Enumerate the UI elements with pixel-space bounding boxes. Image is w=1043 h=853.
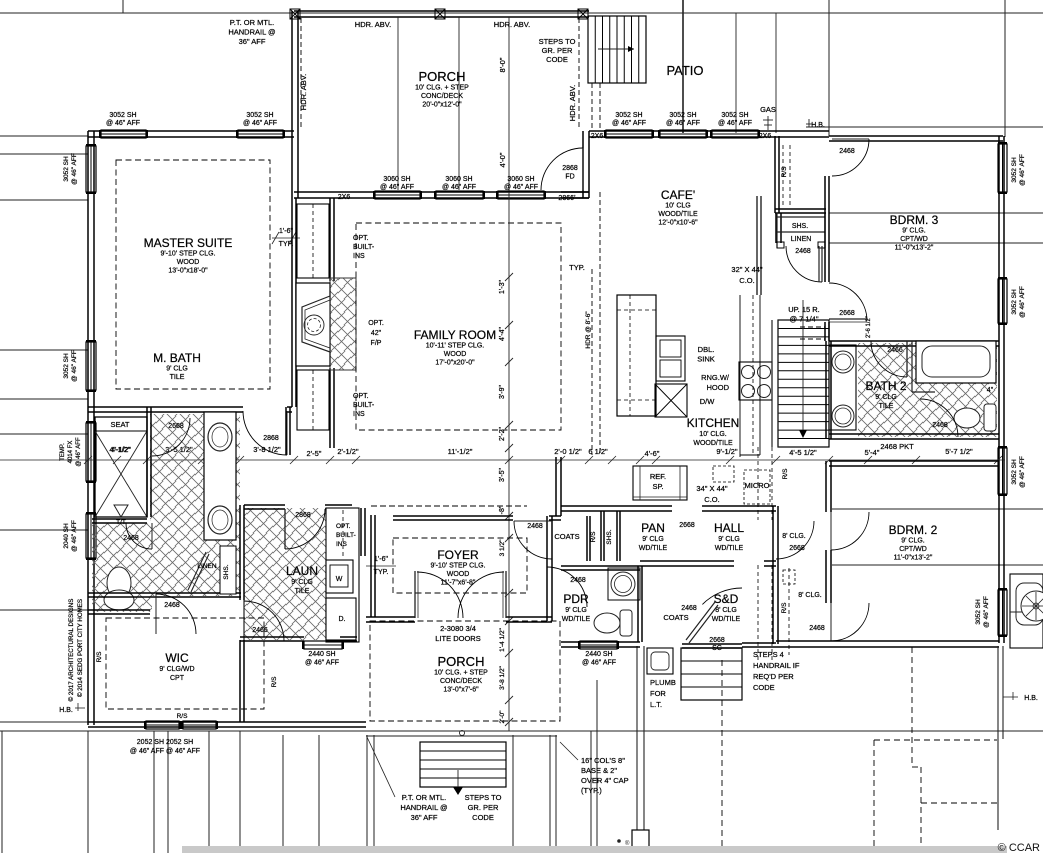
grid vline x123 top (122, 0, 124, 13)
svg-text:-8": -8" (499, 505, 506, 514)
svg-text:2468: 2468 (681, 605, 697, 612)
mbath sink 1 (208, 423, 232, 451)
dbl sink box (656, 336, 685, 381)
porch interior vline 1 (397, 17, 399, 190)
mbath wall below shower (92, 518, 147, 520)
svg-text:3052 SH: 3052 SH (721, 112, 748, 119)
svg-text:8'-0": 8'-0" (498, 57, 507, 72)
svg-text:R/S: R/S (271, 676, 278, 688)
svg-text:C.O.: C.O. (739, 276, 754, 285)
tiny marks bottom (617, 839, 621, 843)
svg-text:12'-0"x10'-6": 12'-0"x10'-6" (658, 220, 698, 227)
svg-text:© 2017 ARCHITECTURAL DESIGNS: © 2017 ARCHITECTURAL DESIGNS (68, 599, 75, 702)
svg-text:3052 SH: 3052 SH (109, 112, 136, 119)
patio vline 2 (735, 13, 737, 133)
family left wall upper (329, 198, 331, 281)
svg-text:HDR. ABV.: HDR. ABV. (355, 20, 391, 29)
grid vline x550 bottom (549, 735, 551, 853)
grid line bottom main (0, 730, 1043, 732)
svg-text:TILE: TILE (170, 374, 185, 381)
porch stairs bottom (420, 742, 506, 787)
foyer left wall (370, 515, 372, 617)
svg-text:© CCAR: © CCAR (998, 842, 1040, 853)
svg-text:(TYP.): (TYP.) (581, 786, 602, 795)
shs wall mbath (220, 546, 236, 594)
bdrm2 left wall upper (825, 461, 827, 512)
mbath bottom wall (88, 592, 241, 594)
opt nook right wall (360, 508, 362, 556)
leader 16cols (560, 742, 578, 760)
svg-text:PAN: PAN (641, 521, 665, 535)
svg-text:C.O.: C.O. (704, 495, 719, 504)
svg-text:@ 46" AFF: @ 46" AFF (380, 184, 414, 191)
svg-text:HANDRAIL IF: HANDRAIL IF (753, 661, 800, 670)
dbl sink inner1 (660, 340, 681, 357)
fireplace surround (302, 296, 330, 352)
bath2 sink 2 (832, 405, 854, 427)
right wall below (997, 646, 999, 830)
cafe top wall (589, 130, 829, 132)
laun W box (326, 560, 353, 593)
svg-text:11'-1/2": 11'-1/2" (448, 447, 473, 456)
cafe dashed hdr line (591, 269, 593, 455)
laun door bottom arc (244, 601, 284, 641)
patio stair arrow (598, 48, 634, 50)
grid line top (0, 12, 1043, 14)
toilet room door (126, 523, 152, 549)
svg-text:@ 46" AFF: @ 46" AFF (305, 660, 339, 667)
pdr sink (611, 572, 635, 596)
svg-text:10' CLG. + STEP: 10' CLG. + STEP (434, 670, 488, 677)
svg-text:WD/TILE: WD/TILE (639, 545, 668, 552)
svg-text:BASE & 2": BASE & 2" (581, 766, 617, 775)
bdrm2 fan box (1010, 574, 1043, 648)
linen door diag (188, 552, 206, 590)
bdrm2 door 1 (831, 512, 869, 550)
dashed box right of ref (713, 466, 734, 482)
svg-text:H.B.: H.B. (811, 122, 825, 129)
svg-text:@ 46" AFF: @ 46" AFF (504, 184, 538, 191)
svg-text:P.T. OR MTL.: P.T. OR MTL. (402, 793, 446, 802)
master east wall (291, 198, 293, 407)
svg-text:8' CLG: 8' CLG (715, 607, 737, 614)
wic laun divider (239, 640, 241, 722)
svg-text:9' CLG/WD: 9' CLG/WD (159, 666, 194, 673)
laun bottom wall (240, 636, 304, 638)
laun north door (284, 509, 286, 549)
wic bottom wall (88, 721, 366, 723)
grid line left y200 (0, 199, 88, 201)
stair landing dashes (800, 326, 825, 328)
svg-text:CPT: CPT (170, 675, 185, 682)
svg-text:LAUN: LAUN (286, 564, 318, 578)
svg-text:WOOD/TILE: WOOD/TILE (693, 440, 733, 447)
svg-text:3'-5": 3'-5" (499, 468, 506, 482)
svg-text:CPT/WD: CPT/WD (899, 546, 927, 553)
center dashed vline bottom (721, 660, 723, 853)
svg-text:HANDRAIL @: HANDRAIL @ (400, 803, 447, 812)
bdrm2 left wall mid (825, 550, 827, 603)
pdr toilet (594, 613, 620, 633)
window 3052 bdrm3 right (998, 144, 1007, 192)
stairtop door 2668 (829, 283, 867, 321)
family ceiling dashed rect (356, 223, 561, 430)
builtin box bottom inner (312, 370, 314, 430)
svg-text:P.T. OR MTL.: P.T. OR MTL. (230, 18, 274, 27)
svg-text:2868: 2868 (263, 435, 279, 442)
svg-text:2468: 2468 (570, 577, 586, 584)
mbath sink 2 (208, 506, 232, 534)
svg-text:2868: 2868 (562, 165, 578, 172)
sd diag door (686, 602, 715, 640)
svg-text:13'-0"x7'-6": 13'-0"x7'-6" (443, 687, 479, 694)
grid line left y530 (0, 529, 88, 531)
mbath top wall (88, 406, 243, 408)
svg-text:2'-0 1/2": 2'-0 1/2" (554, 447, 582, 456)
toilet room hatch (92, 523, 152, 612)
svg-text:9' CLG: 9' CLG (642, 536, 664, 543)
svg-text:3 1/2": 3 1/2" (499, 539, 506, 556)
master top wall (88, 130, 294, 132)
porch floor edge (366, 730, 557, 732)
svg-text:20'-0"x12'-0": 20'-0"x12'-0" (422, 102, 462, 109)
svg-text:9' CLG: 9' CLG (291, 579, 313, 586)
svg-text:PORCH: PORCH (438, 654, 485, 669)
kitchen tall cabinet wall (756, 196, 758, 295)
window 2052 wic 1 (146, 721, 179, 729)
window 2440 laun (304, 641, 342, 649)
shs linen closet (777, 216, 825, 218)
sd stairs (681, 648, 742, 700)
svg-text:11'-7"x6'-8": 11'-7"x6'-8" (441, 580, 476, 587)
grid vline x2 bottom (1, 731, 3, 853)
window 3060 family 1 (375, 191, 420, 199)
bdrm3 left wall (824, 176, 826, 282)
landing bottom wall (742, 642, 776, 644)
svg-text:HDR @ 8'-6": HDR @ 8'-6" (585, 311, 592, 349)
svg-text:LINEN: LINEN (791, 236, 812, 243)
window 3052 left 1 (86, 146, 96, 192)
svg-text:@ 46" AFF: @ 46" AFF (1019, 154, 1026, 186)
svg-text:BDRM. 2: BDRM. 2 (889, 523, 938, 537)
svg-text:2868: 2868 (295, 512, 311, 519)
bottomright dashed jog (912, 766, 921, 768)
svg-text:2668: 2668 (789, 545, 805, 552)
shower TT (114, 505, 128, 517)
svg-text:@ 46" AFF: @ 46" AFF (76, 437, 82, 467)
porch stair arrow down (457, 770, 459, 788)
svg-text:S&D: S&D (714, 592, 739, 606)
svg-text:WIC: WIC (165, 651, 189, 665)
svg-text:OPT.: OPT. (368, 320, 384, 327)
foyer right wall (546, 516, 548, 621)
svg-text:LITE DOORS: LITE DOORS (435, 634, 480, 643)
dbl sink inner2 (660, 360, 681, 377)
svg-text:4": 4" (987, 387, 994, 394)
bdrm2 door 2 (831, 603, 869, 641)
svg-text:BUILT-: BUILT- (336, 532, 356, 539)
window 2052 wic 2 (183, 721, 216, 729)
foyer front wall left (366, 616, 415, 618)
grid vline x591 bottom (590, 731, 592, 853)
svg-text:@ 46" AFF: @ 46" AFF (1019, 286, 1026, 318)
front door arcs (417, 572, 463, 618)
svg-text:© 2014 SEDG PORT CITY HOMES: © 2014 SEDG PORT CITY HOMES (77, 599, 84, 697)
bottomright dashed h1 (874, 739, 997, 741)
door 2868 FD arc (541, 148, 583, 190)
svg-text:BDRM. 3: BDRM. 3 (890, 213, 939, 227)
bath2 toilet (954, 408, 980, 428)
svg-text:INS: INS (336, 541, 348, 548)
sd closet dashed (757, 565, 759, 660)
builtin box top inner (312, 204, 314, 278)
svg-text:9' CLG.: 9' CLG. (902, 228, 926, 235)
sd right wall (772, 506, 774, 644)
grid line left y133 (0, 135, 88, 137)
svg-text:3052 SH: 3052 SH (1011, 289, 1018, 315)
laun builtins column (326, 508, 359, 642)
bdrm2 bottom wall (776, 640, 999, 642)
bath2 vanity (829, 345, 856, 430)
grid vline x597 bottom (596, 680, 598, 853)
svg-text:36" AFF: 36" AFF (411, 813, 438, 822)
grid vline x319 bottom (318, 735, 320, 853)
svg-text:6 1/2": 6 1/2" (588, 447, 608, 456)
window 3052 cafe 2 (660, 130, 706, 138)
cafe dashed hdr line2 (599, 192, 601, 455)
bottomright dashed v1 (911, 647, 913, 767)
svg-text:HDR. ABV.: HDR. ABV. (568, 85, 577, 121)
svg-text:4'-5 1/2": 4'-5 1/2" (789, 448, 817, 457)
svg-text:9'-10' STEP CLG.: 9'-10' STEP CLG. (430, 563, 485, 570)
svg-text:42": 42" (371, 330, 382, 337)
svg-text:3052 SH: 3052 SH (975, 599, 982, 625)
svg-text:@ 46" AFF: @ 46" AFF (71, 520, 78, 552)
pdr bottom wall (561, 641, 640, 643)
shower X (95, 431, 147, 517)
svg-text:2X6: 2X6 (338, 194, 351, 201)
coats door arc (514, 521, 552, 559)
svg-text:9' CLG: 9' CLG (718, 536, 740, 543)
grid line left y722 (0, 721, 88, 723)
svg-text:2040 SH: 2040 SH (63, 523, 70, 549)
kitchen counter dashed right (752, 295, 754, 455)
stair dashed below (757, 447, 759, 520)
svg-text:TILE: TILE (879, 403, 894, 410)
mbath north door arc (152, 418, 190, 456)
svg-text:H.B.: H.B. (59, 707, 73, 714)
svg-text:3060 SH: 3060 SH (507, 176, 534, 183)
svg-text:10' CLG. + STEP: 10' CLG. + STEP (415, 85, 469, 92)
svg-text:2440 SH: 2440 SH (308, 651, 335, 658)
main stairs (778, 320, 829, 447)
laun left wall (239, 505, 241, 600)
porch wall X-box right (578, 9, 588, 19)
svg-text:5'-4": 5'-4" (865, 448, 880, 457)
svg-text:@ 46" AFF: @ 46" AFF (582, 660, 616, 667)
svg-text:OVER 4" CAP: OVER 4" CAP (581, 776, 629, 785)
svg-text:1'-3": 1'-3" (499, 280, 506, 294)
svg-text:WD/TILE: WD/TILE (562, 616, 591, 623)
svg-text:4'-1/2": 4'-1/2" (111, 447, 131, 454)
svg-text:TEMP.: TEMP. (60, 443, 66, 461)
svg-text:3052 SH: 3052 SH (1011, 157, 1018, 183)
svg-text:2'-5": 2'-5" (307, 449, 322, 458)
laun hatch (244, 508, 352, 640)
window 3052 left 2 (86, 342, 96, 390)
porch wall X-box left (290, 9, 300, 19)
svg-text:36" AFF: 36" AFF (239, 37, 266, 46)
svg-text:M. BATH: M. BATH (153, 351, 201, 365)
grid vline x209 bottom (208, 731, 210, 853)
family dim vline (508, 192, 510, 530)
window 3052 cafe 3 (712, 130, 758, 138)
grid line right y565 (832, 564, 1043, 566)
svg-text:STEPS 4: STEPS 4 (753, 650, 784, 659)
svg-text:2X6: 2X6 (759, 133, 772, 140)
laun builtins dash (342, 510, 344, 556)
porch dashed right edge (578, 18, 580, 130)
svg-text:8' CLG.: 8' CLG. (782, 533, 806, 540)
svg-text:10'-11' STEP CLG.: 10'-11' STEP CLG. (426, 343, 484, 350)
svg-text:@ 46" AFF: @ 46" AFF (718, 120, 752, 127)
bottomright dashed h2 (921, 802, 997, 804)
svg-text:3060 SH: 3060 SH (383, 176, 410, 183)
svg-text:9'-1/2": 9'-1/2" (716, 447, 738, 456)
svg-text:CODE: CODE (546, 55, 568, 64)
kitchen island (617, 295, 656, 416)
svg-text:H.B.: H.B. (1024, 695, 1038, 702)
svg-text:SEAT: SEAT (110, 420, 129, 429)
svg-text:CODE: CODE (472, 813, 494, 822)
dw xbox (655, 384, 687, 417)
svg-text:SP.: SP. (652, 482, 663, 491)
svg-text:TILE: TILE (295, 588, 310, 595)
svg-text:2052 SH 2052 SH: 2052 SH 2052 SH (137, 739, 193, 746)
svg-text:INS: INS (353, 411, 365, 418)
grid vline x283 bottom (282, 735, 284, 853)
foyer front wall right (506, 616, 552, 618)
svg-text:TYP.: TYP. (374, 569, 389, 576)
svg-text:32" X 44": 32" X 44" (731, 265, 763, 274)
svg-text:3052 SH: 3052 SH (615, 112, 642, 119)
bottomright dashed v2 (873, 740, 875, 846)
cafe-porch door wall gap (582, 131, 584, 198)
svg-text:COATS: COATS (554, 532, 579, 541)
cafe SE wall (775, 213, 777, 243)
svg-text:2468: 2468 (839, 148, 855, 155)
svg-text:@ 7 1/4": @ 7 1/4" (789, 315, 818, 324)
svg-text:11'-0"x13'-2": 11'-0"x13'-2" (895, 245, 934, 252)
bath2 hatch floor (858, 343, 997, 437)
svg-text:@ 46" AFF: @ 46" AFF (612, 120, 646, 127)
porch wall X-box mid (435, 9, 445, 19)
svg-text:GAS: GAS (760, 105, 776, 114)
svg-text:4'-4": 4'-4" (499, 327, 506, 341)
patio vline dark (682, 0, 684, 133)
svg-text:GR. PER: GR. PER (542, 46, 573, 55)
grid line right y127 (806, 126, 1043, 128)
foyer header dashed (371, 505, 527, 507)
svg-text:CAFE': CAFE' (661, 188, 695, 202)
svg-text:16" COL'S 8": 16" COL'S 8" (581, 756, 625, 765)
svg-text:2468: 2468 (164, 602, 180, 609)
master ceiling dashed rect (116, 160, 270, 389)
family left wall lower (329, 368, 331, 448)
svg-text:1'-6": 1'-6" (374, 556, 388, 563)
window 3052 master top 1 (101, 130, 146, 138)
grid vline x374 bottom (373, 735, 375, 853)
svg-text:@ 46" AFF: @ 46" AFF (666, 120, 700, 127)
svg-text:TYP.: TYP. (279, 241, 294, 248)
mbath vanity band (204, 412, 236, 540)
svg-text:REQ'D PER: REQ'D PER (753, 672, 794, 681)
bath2 top wall (829, 340, 999, 342)
svg-text:9' CLG: 9' CLG (166, 366, 188, 373)
svg-text:2'-2": 2'-2" (499, 427, 506, 441)
svg-text:WD/TILE: WD/TILE (712, 616, 741, 623)
svg-text:3052 SH: 3052 SH (669, 112, 696, 119)
mbath toilet (107, 567, 131, 599)
svg-text:2668: 2668 (709, 637, 725, 644)
bath2 bottom wall (829, 433, 999, 435)
svg-text:CPT/WD: CPT/WD (900, 236, 928, 243)
grid line right y213 (829, 212, 1043, 214)
grid vline x154 bottom (153, 731, 155, 853)
svg-text:STEPS TO: STEPS TO (539, 37, 576, 46)
svg-text:HDR. ABV.: HDR. ABV. (299, 74, 308, 110)
laun top wall (244, 504, 285, 506)
linen door arc (786, 246, 822, 282)
mbath door top arc (243, 411, 287, 455)
mbath right wall (285, 407, 287, 455)
bath2 left wall (825, 341, 827, 439)
svg-text:COATS: COATS (663, 613, 688, 622)
svg-text:2468: 2468 (795, 248, 811, 255)
rs closet walls (774, 136, 776, 213)
fireplace hatch (330, 278, 356, 370)
patio stair dashed below (591, 83, 593, 131)
svg-text:F/P: F/P (371, 340, 382, 347)
patio stairs (588, 16, 646, 83)
svg-text:RNG.W/: RNG.W/ (701, 373, 730, 382)
svg-text:GR. PER: GR. PER (468, 803, 499, 812)
family dim vline ticks (505, 273, 513, 281)
svg-text:11'-0"x13'-2": 11'-0"x13'-2" (894, 555, 933, 562)
svg-text:FAMILY ROOM: FAMILY ROOM (414, 328, 496, 342)
bath2 door arc1 (871, 341, 907, 377)
window 2440 pdr (580, 641, 617, 649)
svg-text:3'-8 1/2": 3'-8 1/2" (253, 445, 281, 454)
bath2 door arc2 (920, 399, 958, 437)
svg-text:1'-4 1/2": 1'-4 1/2" (499, 627, 506, 651)
svg-text:CODE: CODE (753, 683, 775, 692)
pdr right wall (637, 566, 639, 642)
window 3052 bdrm3 right2 (998, 279, 1007, 323)
svg-text:FOYER: FOYER (437, 548, 479, 562)
svg-text:SHS.: SHS. (223, 564, 230, 579)
window 2040 left (86, 514, 96, 558)
pdr top wall (561, 565, 640, 567)
svg-text:CONC/DECK: CONC/DECK (421, 93, 463, 100)
bath2 tub box (916, 341, 996, 383)
grid line left y399 (0, 398, 88, 400)
svg-text:9' CLG: 9' CLG (875, 394, 897, 401)
svg-text:2468 PKT: 2468 PKT (880, 442, 914, 451)
kitchen island dashed (629, 295, 631, 416)
svg-text:9' CLG.: 9' CLG. (901, 538, 925, 545)
svg-text:@ 46" AFF: @ 46" AFF (71, 153, 78, 185)
